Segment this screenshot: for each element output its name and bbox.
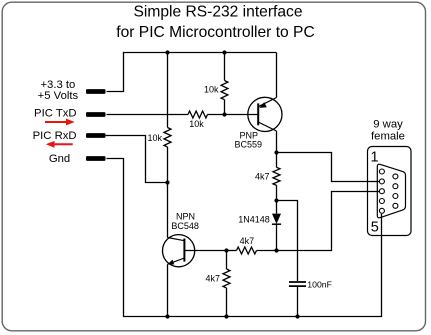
DB9 pin 8 [393,194,398,199]
junction rail at NPN emitter [165,314,169,318]
terminal PIC RxD [86,133,106,138]
svg-text:10k: 10k [147,133,162,143]
label PNP BC559 [235,131,263,150]
wire NPN base to node D [184,250,226,252]
junction rail at R6 [224,314,228,318]
svg-text:PIC RxD: PIC RxD [33,130,77,142]
svg-text:+5 Volts: +5 Volts [38,90,79,102]
wire collector node to DB9 pin 2 [277,153,380,182]
svg-text:5: 5 [371,219,379,235]
svg-text:Simple RS-232 interface: Simple RS-232 interface [133,4,302,21]
wire PNP collector down [276,131,278,153]
svg-text:4k7: 4k7 [205,274,220,284]
svg-text:10k: 10k [204,84,219,94]
wire +V rail to R1 [224,53,226,81]
transistor Q1 PNP BC559 [248,97,282,131]
resistor R6 4k7 vertical [223,269,230,288]
terminal PIC TxD [86,112,106,117]
wire collector node to R4 [276,153,278,168]
DB9 pin 4 [379,199,384,204]
svg-text:1N4148: 1N4148 [238,215,270,225]
wire R2 to PNP base [208,114,258,116]
wire R4 to node B [276,185,278,200]
DB9 pin 5 [379,208,384,213]
DB9 pin 9 [393,203,398,208]
resistor R1 10k vertical [221,81,228,100]
wire Gnd down to bottom rail [107,159,382,317]
terminal Gnd [86,156,106,161]
resistor R5 4k7 horizontal [237,247,257,254]
junction rail at C1 [295,314,299,318]
DB9 pin 7 [393,184,398,189]
label NPN BC548 [171,212,199,231]
wire +V terminal to top rail [107,53,277,92]
terminal +V [86,89,106,94]
svg-text:Gnd: Gnd [49,153,70,165]
label +3.3 to +5 Volts [38,79,79,102]
junction node C [274,248,278,252]
resistor R3 10k vertical [164,128,171,148]
wire R5 to node C [257,250,277,252]
wire PNP emitter to top rail [276,53,278,98]
svg-text:BC559: BC559 [235,140,263,150]
resistor R4 4k7 vertical [273,167,280,185]
svg-text:for PIC Microcontroller to PC: for PIC Microcontroller to PC [116,24,314,41]
wire node D to R6 [226,251,228,270]
junction TxD at R1 [222,112,226,116]
wire R6 to bottom rail [226,288,228,317]
wire RxD node to NPN collector [167,183,169,238]
connector DB9 D-face [377,164,405,218]
svg-text:4k7: 4k7 [255,171,270,181]
wire node D to R5 [227,250,237,252]
junction top rail at R3 [165,50,169,54]
svg-text:PIC TxD: PIC TxD [34,108,76,120]
wire +V net vertical to R3 [167,53,169,128]
label 9 way female [371,119,405,143]
connector DB9 shell [368,147,412,236]
wire PIC RxD jog [106,136,168,183]
svg-text:100nF: 100nF [307,280,332,290]
junction RxD node [165,180,169,184]
wire R1 to TxD line [224,100,226,115]
junction PNP collector node [274,150,278,154]
DB9 pin 3 [379,189,384,194]
svg-text:10k: 10k [189,119,204,129]
DB9 pin 1 [379,169,384,174]
wire NPN emitter to bottom rail [167,264,169,316]
wire PIC TxD to R2 [107,114,189,116]
svg-text:female: female [371,131,405,143]
resistor R2 10k horizontal [188,111,208,118]
DB9 pin 2 [379,179,384,184]
wire R3 to RxD node [167,147,169,183]
junction top rail at R1 [222,50,226,54]
svg-text:9 way: 9 way [373,119,403,131]
capacitor C1 100nF [289,282,306,317]
wire node C to DB9 pin 3 [277,192,380,251]
arrow RxD left [46,141,73,148]
DB9 pin 6 [393,174,398,179]
junction node D [224,248,228,252]
diode D1 1N4148 [272,201,281,251]
svg-text:BC548: BC548 [171,221,199,231]
transistor Q2 NPN BC548 [163,235,195,267]
junction node B [274,198,278,202]
svg-text:4k7: 4k7 [240,236,255,246]
wire node B to capacitor [277,201,298,282]
svg-text:1: 1 [371,149,379,165]
arrow TxD right [45,119,75,126]
